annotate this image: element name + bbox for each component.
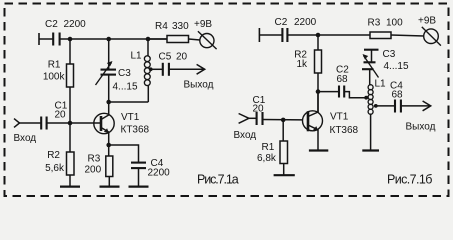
node: base/R1b junction — [281, 118, 286, 123]
wire tap to C4b — [376, 105, 395, 107]
svg-text:Выход: Выход — [184, 80, 214, 91]
wire R3 to ground — [108, 177, 110, 187]
svg-text:5,6k: 5,6k — [45, 163, 65, 174]
resistor R4 body — [167, 36, 189, 43]
wire C3b to L1b — [369, 69, 371, 85]
svg-text:Вход: Вход — [14, 133, 37, 144]
wire R2 to ground — [69, 175, 71, 187]
svg-text:+9В: +9В — [194, 19, 212, 30]
capacitor C1 plates — [41, 117, 46, 130]
wire rail to L1 top — [147, 39, 149, 56]
wire input to C1b — [249, 117, 257, 119]
svg-text:4...15: 4...15 — [113, 81, 138, 92]
svg-text:6,8k: 6,8k — [257, 153, 277, 164]
C3 adjustment arrow — [96, 63, 112, 86]
wire tick to C2 — [39, 38, 53, 40]
wire emitter node to C4 — [109, 145, 139, 163]
wire top rail to R3 — [287, 34, 370, 36]
svg-text:L1: L1 — [375, 79, 387, 90]
capacitor C5 plates — [163, 63, 169, 76]
svg-text:R4: R4 — [155, 21, 168, 32]
node: rail/R2 junction — [316, 33, 321, 38]
input terminal arrow (Вход) — [14, 119, 20, 128]
svg-text:R3: R3 — [88, 153, 101, 164]
svg-text:68: 68 — [392, 90, 404, 101]
wire rail to R1 top — [69, 39, 71, 64]
shield / case dashed enclosure — [5, 4, 449, 197]
wire R2 bottom to collector node — [317, 73, 319, 112]
transistor VT1b circle — [303, 111, 323, 131]
svg-text:VT1: VT1 — [121, 112, 140, 123]
svg-text:330: 330 — [172, 21, 189, 32]
svg-text:КТ368: КТ368 — [330, 125, 359, 136]
capacitor C2 plates — [53, 33, 59, 46]
node: base/R1/R2 junction — [68, 121, 73, 126]
output terminal arrow (Выход) — [197, 64, 205, 74]
svg-text:КТ368: КТ368 — [121, 125, 150, 136]
svg-text:200: 200 — [85, 165, 102, 176]
transistor VT1 collector lead — [101, 102, 109, 120]
node: rail/C3 junction — [106, 37, 111, 42]
svg-text:Рис.7.1б: Рис.7.1б — [387, 172, 432, 186]
capacitor C1b plates — [257, 112, 263, 125]
resistor R1b body — [280, 141, 288, 164]
svg-text:100: 100 — [386, 18, 403, 29]
C3b lower plate — [362, 68, 374, 70]
svg-text:R3: R3 — [368, 18, 381, 29]
ground bar under emitter — [309, 149, 328, 151]
node: tank left tap — [364, 96, 368, 100]
wire R1b to ground — [283, 164, 285, 176]
svg-text:C5: C5 — [159, 52, 172, 63]
wire C4 to ground — [138, 168, 140, 186]
svg-text:2200: 2200 — [64, 19, 87, 30]
+9V terminal diagonal stroke (right) — [422, 27, 441, 46]
ground bar under R2 — [60, 186, 80, 188]
coupling capacitor C2-68 plates — [339, 86, 344, 98]
svg-text:+9В: +9В — [418, 16, 436, 27]
resistor R3b body — [370, 32, 391, 39]
wire R3b to +9V terminal — [391, 35, 424, 36]
C3b mid plate — [364, 61, 376, 63]
svg-text:R1: R1 — [48, 60, 61, 71]
wire C1b to base — [263, 119, 304, 121]
wire R1 bottom to base node — [69, 87, 71, 123]
wire L1 bottom to tank bottom — [147, 86, 149, 103]
wire tank bottom — [109, 101, 149, 103]
wire C1 to transistor base — [47, 122, 101, 124]
svg-text:L1: L1 — [131, 51, 143, 62]
+9V terminal circle — [200, 34, 214, 48]
wire rail to R2 top — [317, 35, 319, 50]
wire base node to R1b — [282, 120, 284, 141]
wire tick to C2b — [259, 34, 282, 36]
emitter arrowhead (right) — [313, 126, 318, 131]
emitter arrowhead — [104, 128, 109, 133]
wire C5 to output — [169, 68, 204, 70]
svg-text:C2: C2 — [45, 19, 58, 30]
wire R4 to +9V terminal — [189, 39, 201, 40]
capacitor C2b plates — [282, 28, 287, 42]
svg-text:C3: C3 — [118, 68, 131, 79]
ground bar under L1b — [362, 149, 379, 151]
+9V terminal diagonal stroke — [198, 31, 217, 49]
transistor VT1b emitter lead with arrow — [308, 125, 318, 150]
wire base node to R2 — [69, 123, 71, 152]
node: rail/L1 junction — [146, 37, 151, 42]
ground bar under C4 — [129, 186, 149, 188]
+9V terminal circle (right) — [424, 29, 439, 44]
variable capacitor C3 plates — [101, 70, 117, 75]
svg-text:Вход: Вход — [234, 130, 257, 141]
C3b stem — [371, 50, 373, 62]
output terminal arrow (Выход right) — [423, 101, 431, 111]
svg-text:68: 68 — [337, 74, 349, 85]
ground bar under R3 — [100, 186, 120, 188]
wire top rail C2 to R4 — [60, 38, 167, 40]
svg-text:VT1: VT1 — [330, 112, 349, 123]
resistor R2b body — [315, 50, 322, 73]
wire collector node to C2b coupling cap — [318, 91, 339, 93]
svg-text:C2: C2 — [275, 17, 288, 28]
svg-text:4...15: 4...15 — [384, 61, 409, 72]
capacitor C2b left open-terminal tick — [258, 28, 260, 42]
input terminal arrow (Вход right) — [239, 114, 249, 124]
transistor VT1 base bar — [100, 116, 103, 131]
node: tank right tap — [374, 104, 378, 108]
wire emitter to R3 — [108, 145, 110, 156]
node: emitter junction — [106, 143, 111, 148]
svg-text:20: 20 — [253, 104, 265, 115]
wire C4b to output — [401, 105, 430, 107]
svg-text:C3: C3 — [383, 49, 396, 60]
resistor R1 body — [67, 64, 74, 87]
inductor L1b coil — [368, 85, 373, 115]
trimmer capacitor C3b top plate — [364, 49, 379, 51]
wire C3 bottom to tank bottom node — [108, 75, 110, 102]
node: collector / C2b coupling junction — [316, 89, 321, 94]
wire L1 tap to C5 — [151, 68, 163, 70]
svg-text:2200: 2200 — [294, 17, 317, 28]
wire L1b bottom to ground — [370, 114, 372, 151]
svg-text:R2: R2 — [47, 150, 60, 161]
capacitor C4b plates — [395, 100, 401, 113]
transistor VT1 emitter lead with arrow — [101, 128, 109, 146]
inductor L1 coil — [144, 56, 150, 86]
transistor VT1b collector lead — [308, 92, 318, 117]
wire rail to C3 top — [108, 39, 110, 70]
svg-text:R1: R1 — [262, 142, 275, 153]
C3b adjustment arrow — [364, 56, 379, 78]
node: tank bottom / collector junction — [106, 100, 111, 105]
capacitor C2 left open-terminal tick — [38, 33, 40, 45]
node: rail/R1 junction — [68, 37, 73, 42]
resistor R2 body — [67, 152, 75, 175]
wire C2-68 to tank tap — [344, 92, 366, 98]
capacitor C4 plates — [131, 163, 146, 169]
node: L1 tap — [149, 67, 153, 71]
svg-text:20: 20 — [176, 52, 188, 63]
svg-text:20: 20 — [55, 110, 67, 121]
svg-text:Рис.7.1а: Рис.7.1а — [197, 172, 239, 186]
svg-text:100k: 100k — [43, 72, 66, 83]
svg-text:Выход: Выход — [406, 121, 436, 132]
wire rail to R4 — [148, 38, 167, 40]
transistor VT1 circle — [94, 113, 114, 133]
svg-text:1k: 1k — [296, 59, 308, 70]
ground bar under R1b — [274, 174, 295, 176]
resistor R3 body — [106, 156, 113, 177]
wire input to C1 — [20, 122, 42, 124]
transistor VT1b base bar — [307, 111, 310, 131]
svg-text:2200: 2200 — [148, 168, 171, 179]
